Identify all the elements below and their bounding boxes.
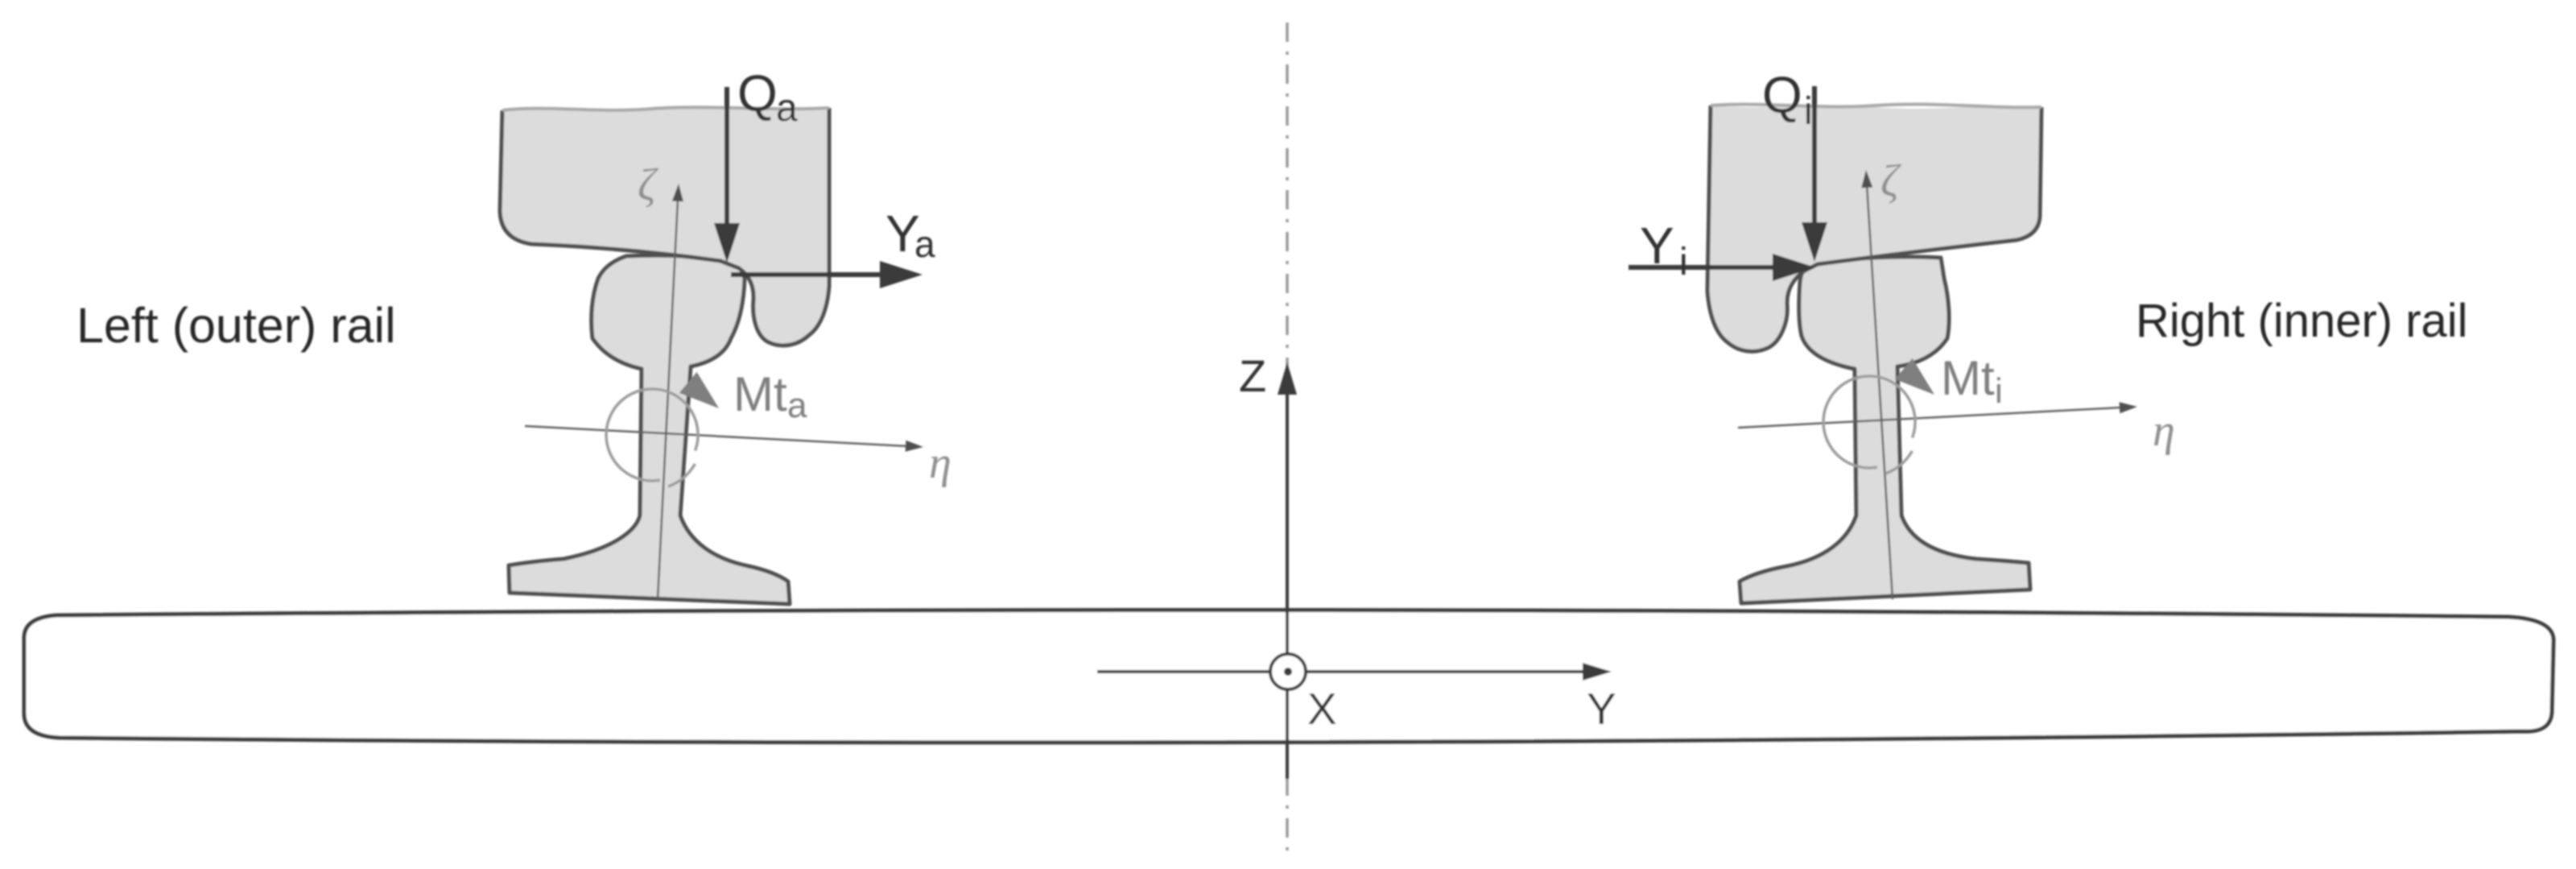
svg-text:Right (inner) rail: Right (inner) rail	[2136, 295, 2468, 347]
sleeper / track slab	[24, 610, 2553, 742]
svg-text:η: η	[2153, 406, 2175, 456]
right rail local axis zeta	[1861, 170, 1893, 599]
svg-text:a: a	[914, 223, 935, 265]
svg-text:Y: Y	[1587, 684, 1616, 734]
svg-text:Left (outer) rail: Left (outer) rail	[76, 298, 396, 353]
svg-text:a: a	[787, 386, 807, 425]
right wheel	[1707, 104, 2041, 351]
global Y axis	[1097, 663, 1612, 681]
svg-text:ζ: ζ	[1880, 156, 1901, 206]
right rail (inner)	[1740, 257, 2030, 603]
global Z axis	[1278, 362, 1297, 779]
svg-text:ζ: ζ	[638, 160, 658, 210]
left rail local axis eta	[525, 426, 923, 452]
svg-text:i: i	[1995, 371, 2003, 411]
svg-text:i: i	[1679, 241, 1688, 283]
force arrow Y_i	[1629, 254, 1815, 281]
left wheel	[500, 107, 829, 346]
force arrow Y_a	[731, 261, 923, 288]
svg-text:Q: Q	[737, 64, 778, 122]
track centerline (dash-dot)	[1286, 23, 1289, 852]
left rail local axis zeta	[658, 184, 683, 599]
svg-text:Z: Z	[1239, 350, 1266, 401]
svg-text:a: a	[776, 87, 798, 130]
svg-text:Q: Q	[1762, 66, 1802, 124]
svg-text:Mt: Mt	[733, 367, 787, 421]
left rail (outer)	[509, 255, 790, 604]
force arrow Q_a	[714, 87, 740, 263]
moment circle Mt_i	[1823, 358, 1934, 474]
origin / X axis out of plane	[1270, 654, 1306, 689]
svg-text:i: i	[1804, 90, 1813, 133]
svg-text:Mt: Mt	[1941, 351, 1995, 405]
svg-text:Y: Y	[1640, 217, 1674, 275]
moment circle Mt_a	[606, 372, 719, 486]
svg-text:η: η	[929, 438, 952, 488]
force arrow Q_i	[1802, 86, 1827, 262]
svg-text:X: X	[1307, 684, 1337, 734]
right rail local axis eta	[1738, 402, 2137, 428]
